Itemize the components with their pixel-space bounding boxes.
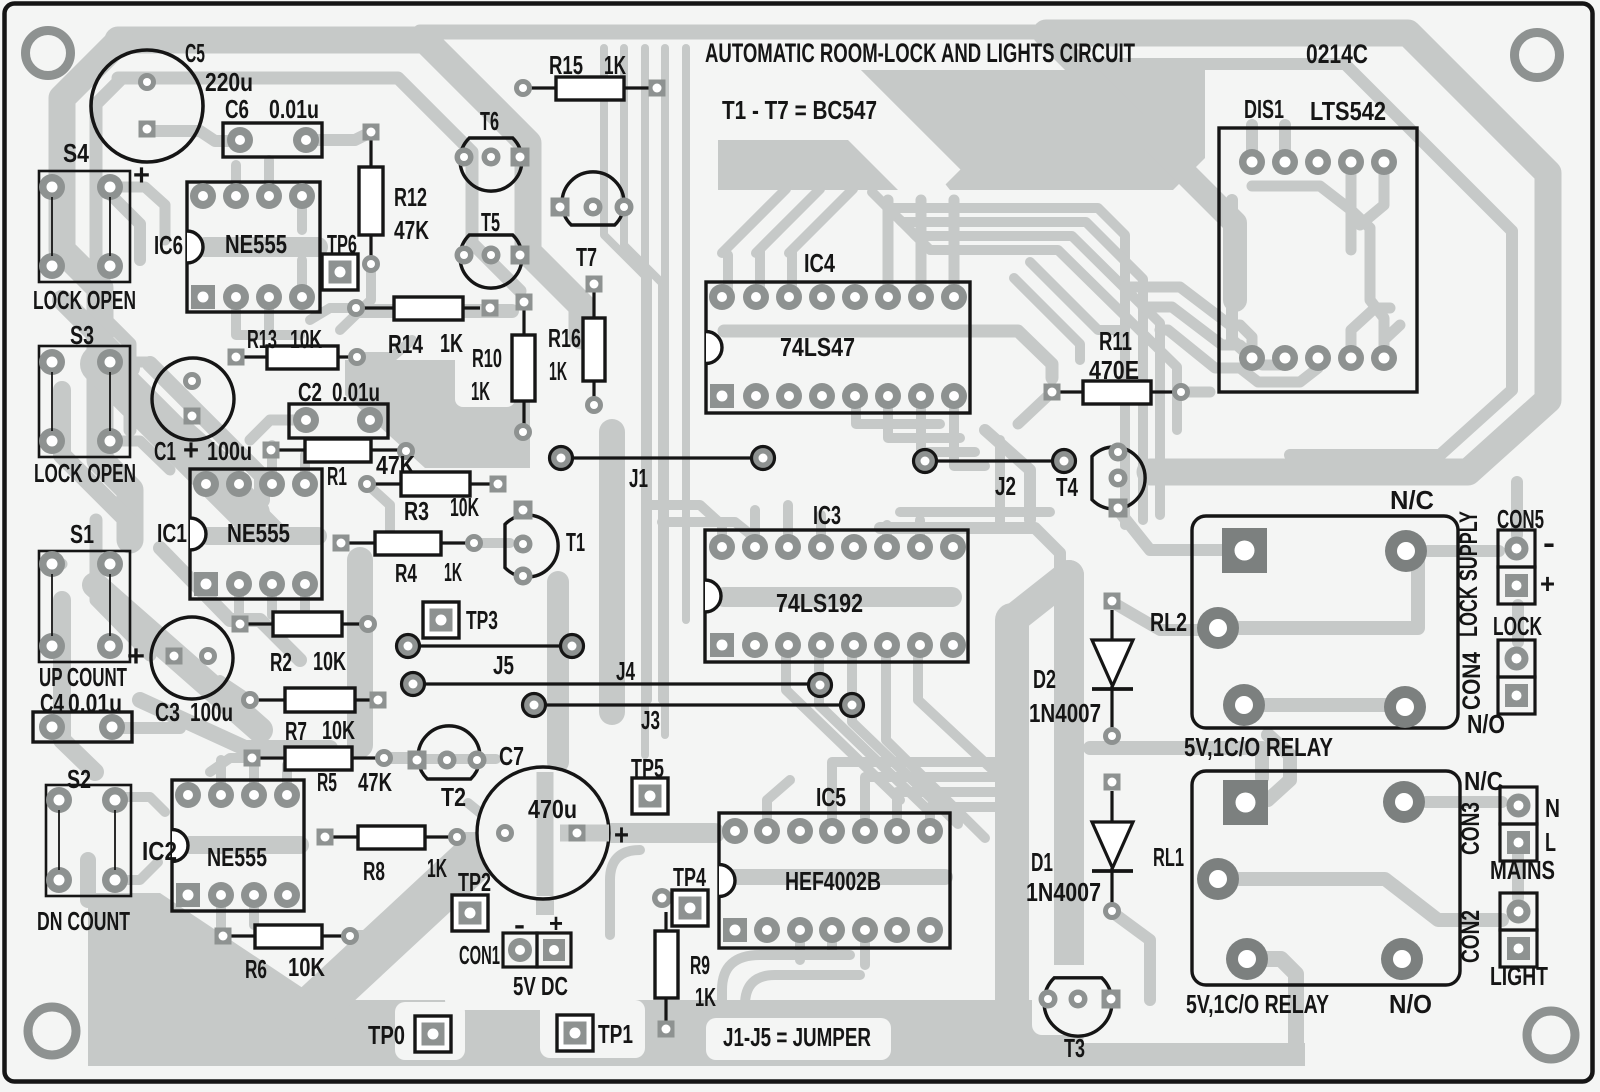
svg-text:C1: C1 — [154, 436, 176, 466]
wire trace — [140, 700, 330, 748]
svg-text:IC3: IC3 — [813, 500, 841, 530]
svg-text:100u: 100u — [207, 436, 252, 466]
svg-text:LTS542: LTS542 — [1310, 96, 1386, 126]
svg-text:47K: 47K — [394, 215, 429, 245]
wire trace — [518, 340, 531, 360]
transistor T1 — [505, 501, 585, 586]
svg-text:+: + — [614, 819, 629, 852]
wire trace — [420, 25, 1052, 40]
svg-text:S2: S2 — [67, 764, 91, 794]
wire trace — [220, 680, 250, 700]
switch S4 — [33, 138, 136, 315]
svg-text:R14: R14 — [388, 329, 423, 359]
wire trace — [661, 48, 669, 735]
mounting hole top-left — [26, 31, 71, 76]
wire trace — [62, 40, 130, 540]
resistor R1 — [263, 439, 416, 491]
wire trace — [727, 869, 945, 885]
wire trace — [728, 250, 792, 297]
wire trace — [62, 300, 130, 368]
svg-text:RL1: RL1 — [1153, 842, 1184, 872]
wire trace — [722, 189, 853, 253]
svg-text:+: + — [549, 908, 563, 938]
svg-text:C6: C6 — [225, 94, 249, 124]
wire trace — [1252, 125, 1285, 162]
wire trace — [369, 415, 420, 426]
svg-text:T7: T7 — [576, 242, 597, 272]
wire trace — [1239, 558, 1418, 628]
svg-text:10K: 10K — [313, 646, 346, 676]
svg-text:1K: 1K — [471, 376, 490, 406]
svg-text:5V,1C/O RELAY: 5V,1C/O RELAY — [1184, 732, 1333, 762]
svg-text:J2: J2 — [995, 471, 1016, 501]
svg-text:R10: R10 — [472, 343, 502, 373]
wire trace — [624, 48, 662, 700]
wire trace — [1112, 602, 1218, 630]
svg-text:LOCK SUPPLY: LOCK SUPPLY — [1455, 511, 1483, 637]
wire trace — [682, 48, 690, 620]
svg-text:N/C: N/C — [1464, 766, 1503, 796]
wire trace — [190, 836, 300, 854]
svg-text:T6: T6 — [480, 106, 499, 136]
svg-text:+: + — [1540, 568, 1555, 599]
svg-text:IC4: IC4 — [804, 248, 835, 278]
connector CON5 — [1455, 504, 1555, 637]
test point TP1 — [557, 1015, 633, 1051]
copper pour — [345, 360, 530, 468]
svg-text:RL2: RL2 — [1150, 607, 1187, 637]
svg-text:100u: 100u — [190, 697, 233, 727]
transistor T7 — [551, 172, 634, 272]
svg-text:LOCK OPEN: LOCK OPEN — [33, 285, 136, 315]
wire trace — [239, 584, 305, 620]
transistor T3 — [1039, 978, 1121, 1063]
svg-text:TP6: TP6 — [327, 229, 357, 259]
svg-text:+: + — [127, 640, 145, 673]
wire trace — [1143, 307, 1285, 365]
capacitor C3 — [151, 617, 233, 727]
wire trace — [1512, 855, 1524, 898]
wire trace — [297, 196, 307, 297]
svg-text:+: + — [133, 159, 150, 192]
keepout island — [445, 915, 585, 1010]
wire trace — [800, 930, 865, 965]
svg-text:S3: S3 — [70, 320, 94, 350]
svg-text:DN COUNT: DN COUNT — [37, 906, 130, 936]
svg-text:470u: 470u — [528, 794, 577, 824]
svg-text:TP1: TP1 — [598, 1019, 633, 1049]
svg-text:NE555: NE555 — [227, 518, 290, 548]
IC IC1 NE555 — [157, 469, 322, 599]
svg-text:CON5: CON5 — [1497, 504, 1544, 534]
wire trace — [95, 585, 260, 730]
wire trace — [918, 646, 995, 772]
wire trace — [360, 304, 512, 318]
capacitor C4 — [33, 688, 132, 742]
svg-text:1K: 1K — [427, 853, 447, 883]
wire trace — [1238, 544, 1250, 556]
note T1-T7 — [722, 95, 877, 125]
wire trace — [1426, 796, 1502, 808]
mounting hole top-right — [1515, 33, 1560, 78]
resistor R10 — [471, 294, 535, 442]
wire trace — [1018, 392, 1052, 424]
svg-text:74LS47: 74LS47 — [780, 332, 855, 362]
wire trace — [1090, 748, 1262, 778]
connector CON4 — [1458, 611, 1542, 714]
wire trace — [190, 430, 230, 465]
svg-text:C5: C5 — [185, 38, 205, 68]
wire trace — [995, 620, 1029, 1032]
capacitor C2 — [289, 377, 388, 438]
wire trace — [62, 600, 95, 772]
keepout island — [1032, 965, 1140, 1035]
wire trace — [1360, 162, 1384, 225]
wire trace — [886, 206, 1143, 520]
wire trace — [1512, 605, 1524, 642]
test point TP4 — [652, 862, 708, 926]
svg-text:1K: 1K — [695, 982, 716, 1012]
wire trace — [767, 780, 790, 831]
wire trace — [390, 754, 496, 764]
svg-text:TP0: TP0 — [368, 1020, 405, 1050]
svg-text:TP3: TP3 — [466, 605, 498, 635]
svg-text:0.01u: 0.01u — [332, 377, 380, 407]
test point TP5 — [631, 753, 668, 814]
svg-text:DIS1: DIS1 — [1244, 94, 1284, 124]
switch S2 — [37, 764, 131, 936]
wire trace — [604, 48, 648, 700]
wire trace — [724, 331, 1052, 378]
svg-text:TP2: TP2 — [458, 867, 491, 897]
svg-text:T1: T1 — [566, 527, 585, 557]
resistor R3 — [358, 472, 507, 526]
connector CON1 — [459, 908, 571, 1001]
wire trace — [52, 441, 62, 646]
copper pour — [855, 70, 1205, 190]
wire trace — [880, 528, 1060, 590]
svg-text:C4: C4 — [40, 688, 64, 718]
svg-text:R5: R5 — [317, 767, 337, 797]
wire trace — [722, 955, 850, 1010]
wire trace — [856, 396, 985, 466]
svg-text:LIGHT: LIGHT — [1490, 961, 1548, 991]
copper pour — [718, 140, 898, 190]
wire trace — [118, 78, 520, 291]
keepout island — [395, 1002, 465, 1060]
code 0214C — [1306, 39, 1368, 69]
IC IC3 74LS192 — [705, 500, 968, 662]
svg-text:NE555: NE555 — [207, 842, 267, 872]
wire trace — [1239, 879, 1502, 920]
wire trace — [1046, 33, 1548, 472]
wire trace — [116, 722, 180, 734]
wire trace — [1160, 330, 1318, 382]
resistor R4 — [333, 532, 484, 588]
jumper J2 — [914, 450, 1076, 502]
svg-text:10K: 10K — [288, 952, 325, 982]
svg-text:LOCK OPEN: LOCK OPEN — [34, 458, 136, 488]
svg-text:220u: 220u — [205, 67, 253, 97]
wire trace — [1232, 200, 1252, 358]
svg-text:+: + — [183, 434, 199, 467]
wire trace — [1351, 175, 1384, 340]
transistor T2 — [408, 726, 487, 812]
wire trace — [1181, 387, 1210, 398]
svg-text:CON4: CON4 — [1458, 652, 1486, 710]
resistor R12 — [359, 124, 429, 274]
test point TP2 — [452, 867, 491, 931]
resistor R6 — [215, 925, 360, 984]
svg-text:0.01u: 0.01u — [68, 688, 122, 718]
wire trace — [210, 758, 252, 772]
wire trace — [1054, 575, 1084, 1035]
svg-text:10K: 10K — [322, 715, 355, 745]
wire trace — [914, 234, 1177, 430]
svg-text:10K: 10K — [290, 324, 322, 354]
wire trace — [724, 587, 952, 607]
wire trace — [96, 520, 150, 655]
svg-text:47K: 47K — [358, 767, 392, 797]
svg-text:MAINS: MAINS — [1490, 855, 1555, 885]
IC IC5 HEF4002B — [719, 782, 950, 948]
wire trace — [1511, 482, 1523, 535]
wire trace — [625, 830, 655, 840]
svg-text:IC6: IC6 — [154, 230, 183, 260]
wire trace — [100, 364, 250, 514]
svg-text:S4: S4 — [63, 138, 89, 168]
svg-text:N/C: N/C — [1390, 485, 1434, 515]
wire trace — [340, 264, 371, 330]
wire trace — [118, 40, 582, 336]
wire trace — [1268, 735, 1290, 800]
wire trace — [786, 646, 985, 838]
wire trace — [96, 180, 140, 260]
svg-text:1N4007: 1N4007 — [1029, 698, 1101, 728]
wire trace — [310, 308, 356, 320]
diode D2 — [1029, 593, 1133, 746]
svg-text:NE555: NE555 — [225, 229, 287, 259]
wire trace — [1070, 64, 1512, 455]
transistor T4 — [1056, 443, 1145, 518]
wire trace — [300, 862, 470, 1020]
relay RL2 — [1150, 485, 1505, 762]
wire trace — [368, 485, 390, 540]
resistor R16 — [548, 276, 605, 415]
svg-text:N/O: N/O — [1389, 989, 1432, 1019]
IC IC4 74LS47 — [706, 248, 970, 413]
svg-text:R13: R13 — [247, 324, 277, 354]
svg-text:AUTOMATIC ROOM-LOCK AND LIGHTS: AUTOMATIC ROOM-LOCK AND LIGHTS CIRCUIT — [705, 38, 1135, 68]
wire trace — [236, 160, 300, 335]
wire trace — [547, 582, 569, 762]
wire trace — [150, 364, 262, 500]
mounting hole bottom-left — [28, 1007, 76, 1055]
svg-text:1K: 1K — [549, 356, 567, 386]
wire trace — [250, 420, 306, 440]
resistor R2 — [232, 612, 378, 677]
resistor R8 — [317, 826, 467, 886]
wire trace — [455, 345, 515, 407]
wire trace — [1012, 575, 1069, 620]
wire trace — [1247, 959, 1296, 1050]
svg-text:74LS192: 74LS192 — [776, 588, 863, 618]
svg-text:R11: R11 — [1099, 326, 1132, 356]
svg-text:J4: J4 — [616, 656, 635, 686]
connector CON3 — [1457, 787, 1560, 885]
wire trace — [610, 850, 640, 935]
wire trace — [141, 76, 153, 88]
wire trace — [755, 505, 821, 547]
svg-text:R1: R1 — [327, 461, 347, 491]
wire trace — [221, 895, 254, 930]
wire trace — [239, 445, 305, 484]
svg-text:L: L — [1545, 827, 1556, 857]
svg-text:T5: T5 — [481, 207, 500, 237]
svg-text:C3: C3 — [155, 697, 180, 727]
wire trace — [347, 560, 373, 745]
wire trace — [1400, 551, 1412, 560]
connector CON2 — [1457, 893, 1548, 991]
svg-text:C2: C2 — [298, 377, 322, 407]
svg-text:J1-J5 = JUMPER: J1-J5 = JUMPER — [723, 1022, 871, 1052]
svg-text:S1: S1 — [70, 519, 94, 549]
wire trace — [985, 430, 1030, 520]
wire trace — [457, 832, 504, 842]
svg-text:R4: R4 — [395, 558, 417, 588]
svg-text:R2: R2 — [270, 647, 292, 677]
wire trace — [641, 48, 649, 755]
wire trace — [80, 860, 96, 900]
resistor R9 — [655, 912, 716, 1038]
svg-text:470E: 470E — [1089, 355, 1139, 385]
wire trace — [1125, 287, 1252, 358]
svg-text:N: N — [1545, 793, 1560, 823]
capacitor C1 — [152, 358, 252, 467]
svg-text:-: - — [1543, 527, 1555, 560]
svg-text:D1: D1 — [1031, 847, 1053, 877]
svg-text:TP4: TP4 — [673, 862, 706, 892]
wire trace — [350, 930, 405, 940]
wire trace — [1118, 510, 1222, 550]
svg-text:1K: 1K — [604, 50, 626, 80]
svg-text:CON1: CON1 — [459, 940, 500, 970]
wire trace — [147, 131, 239, 141]
svg-text:R9: R9 — [690, 950, 710, 980]
wire trace — [1252, 186, 1351, 250]
wire trace — [1427, 545, 1499, 557]
wire trace — [1014, 278, 1080, 360]
wire trace — [900, 507, 1050, 517]
resistor R14 — [347, 297, 499, 359]
capacitor C5 — [91, 38, 253, 192]
svg-text:IC5: IC5 — [816, 782, 846, 812]
test point TP6 — [322, 229, 358, 290]
wire trace — [1112, 912, 1150, 1000]
wire trace — [662, 522, 755, 538]
svg-text:T4: T4 — [1056, 472, 1078, 502]
wire trace — [887, 520, 920, 547]
resistor R13 — [228, 324, 367, 369]
copper pour notch — [770, 30, 935, 195]
op-amp U IC6 NE555 — [154, 182, 320, 312]
mounting hole bottom-right — [1527, 1011, 1575, 1059]
svg-text:CON2: CON2 — [1457, 910, 1485, 963]
test point TP3 — [423, 602, 498, 638]
keepout island — [540, 1000, 645, 1058]
svg-text:T3: T3 — [1064, 1033, 1085, 1063]
svg-text:1K: 1K — [444, 557, 462, 587]
wire trace — [872, 192, 1125, 525]
wire trace — [110, 187, 165, 240]
svg-text:R3: R3 — [404, 496, 429, 526]
copper pour — [1062, 1043, 1305, 1066]
svg-text:T1 - T7 = BC547: T1 - T7 = BC547 — [722, 95, 877, 125]
resistor R5 — [244, 747, 394, 797]
capacitor C6 — [223, 94, 322, 157]
wire trace — [577, 823, 715, 843]
copper pour — [290, 1000, 1078, 1066]
svg-text:0214C: 0214C — [1306, 39, 1368, 69]
wire trace — [1048, 36, 1235, 300]
wire trace — [599, 432, 625, 712]
wire trace — [385, 752, 408, 762]
wire trace — [160, 548, 300, 660]
wire trace — [357, 340, 412, 357]
copper pour — [88, 893, 420, 1066]
wire trace — [230, 480, 285, 535]
svg-text:R15: R15 — [549, 50, 583, 80]
resistor R15 — [514, 50, 666, 100]
switch S1 — [39, 519, 145, 692]
jumper J5 — [397, 635, 584, 681]
resistor R7 — [241, 688, 387, 746]
wire trace — [96, 78, 130, 430]
wire trace — [1030, 262, 1125, 330]
capacitor C7 — [477, 741, 629, 899]
svg-text:TP5: TP5 — [631, 753, 664, 783]
svg-text:T2: T2 — [441, 782, 466, 812]
keepout island — [706, 1018, 891, 1060]
wire trace — [995, 440, 1005, 525]
svg-text:D2: D2 — [1033, 664, 1056, 694]
svg-text:10K: 10K — [450, 492, 479, 522]
svg-text:R6: R6 — [245, 954, 267, 984]
wire trace — [307, 132, 371, 140]
svg-text:J1: J1 — [629, 463, 648, 493]
diode D1 — [1026, 774, 1133, 921]
svg-text:0.01u: 0.01u — [269, 94, 319, 124]
display DIS1 LTS542 — [1219, 94, 1417, 392]
wire trace — [536, 862, 554, 1000]
jumper J4 — [402, 656, 832, 697]
resistor R11 — [1044, 326, 1191, 404]
wire trace — [832, 762, 995, 831]
wire trace — [52, 187, 62, 266]
svg-text:1N4007: 1N4007 — [1026, 877, 1101, 907]
IC IC2 NE555 — [142, 780, 304, 911]
switch S3 — [34, 320, 136, 488]
test point TP0 — [368, 1016, 451, 1052]
svg-text:IC1: IC1 — [157, 518, 187, 548]
transistor T5 — [455, 207, 530, 288]
wire trace — [468, 803, 505, 833]
wire trace — [115, 797, 165, 880]
svg-text:R8: R8 — [363, 856, 385, 886]
svg-text:C7: C7 — [499, 741, 524, 771]
wire trace — [110, 362, 170, 470]
jumper J3 — [523, 694, 864, 736]
